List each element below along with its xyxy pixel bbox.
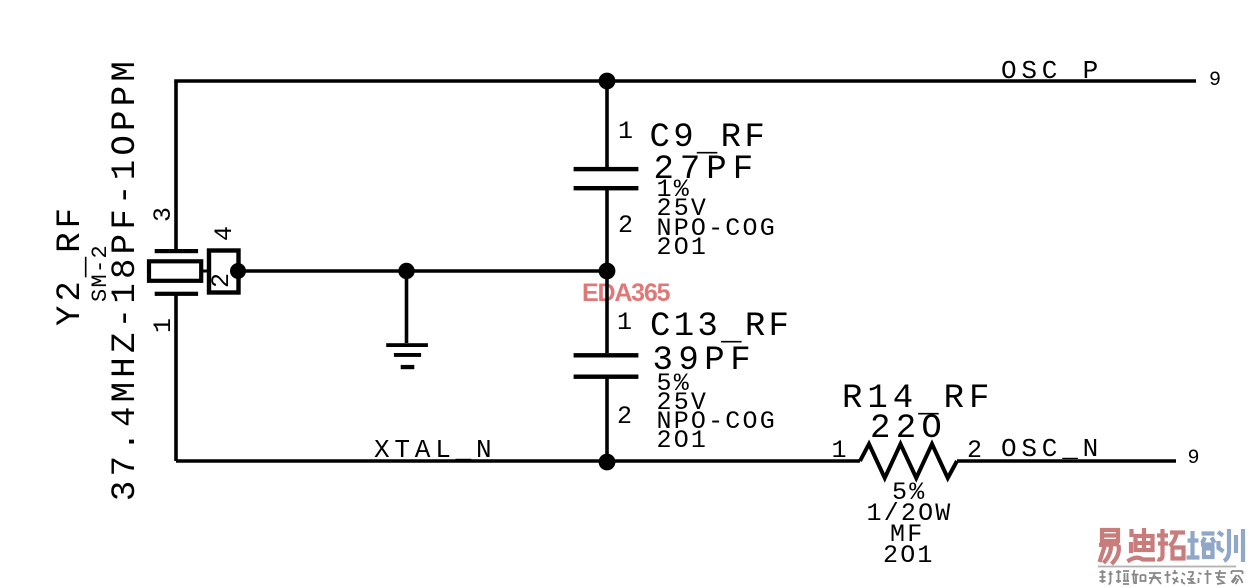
wire C9 vertical top: [605, 81, 609, 167]
logo slogan 射频和天线设计专家 (gray): [1100, 570, 1243, 584]
C9 pin 1: [618, 119, 633, 144]
crystal pin 3 (rotated): [151, 206, 176, 221]
crystal pin 4 (rotated): [212, 225, 237, 240]
junction dot middle C9/C13: [599, 263, 616, 280]
net label XTAL_N: [374, 437, 496, 463]
wire middle horizontal: [239, 269, 607, 273]
crystal Y2 body rect: [149, 261, 201, 281]
crystal pin 1 (rotated): [151, 317, 176, 332]
wire C13 vertical bottom: [605, 378, 609, 461]
junction dot crystal pin2: [230, 263, 246, 279]
R14 properties: [892, 480, 926, 505]
crystal Y2 package SM-2 (rotated): [90, 244, 112, 302]
C9 pin 2: [618, 213, 633, 238]
capacitor C13 refdes: [650, 310, 792, 344]
wire bottom right to OSC_N: [957, 459, 1176, 463]
logo char 训: [1218, 529, 1243, 562]
ground symbol: [386, 343, 428, 369]
C13 pin 1: [617, 310, 632, 335]
junction dot bottom: [599, 454, 616, 471]
crystal Y2 bottom plate: [155, 292, 198, 296]
junction dot ground tap: [398, 263, 414, 279]
C13 properties: [657, 371, 691, 396]
EDA365 watermark: [582, 281, 669, 306]
R14 pin 1: [832, 438, 847, 463]
wire C13 vertical top: [605, 271, 609, 353]
resistor R14 zigzag: [860, 444, 957, 478]
capacitor C13 value 39PF: [653, 344, 757, 378]
capacitor C13 plates: [574, 353, 639, 379]
capacitor C9 plates: [574, 167, 639, 191]
C13 pin 2: [617, 404, 632, 429]
resistor R14 value 220: [870, 412, 947, 446]
crystal Y2 refdes (rotated): [54, 204, 88, 326]
crystal Y2 body: [149, 249, 239, 296]
off-page number 9 top: [1209, 71, 1221, 91]
logo underline: [1098, 566, 1236, 568]
C9 properties: [657, 177, 691, 202]
wire crystal top vertical: [174, 81, 178, 252]
crystal body to pin-box stub: [201, 270, 210, 273]
wire ground stub: [405, 271, 409, 343]
wire C9 vertical bottom: [605, 190, 609, 271]
junction dot top: [599, 73, 616, 90]
capacitor C9 refdes: [650, 121, 769, 155]
logo char 易: [1099, 530, 1119, 564]
net label OSC_N: [1001, 436, 1103, 462]
wire top horizontal OSC_P: [174, 79, 1196, 83]
crystal Y2 value 37.4MHZ-18PF-1OPPM (rotated): [109, 57, 143, 501]
crystal pin box (pins 2/4): [209, 251, 239, 293]
wire bottom horizontal XTAL_N: [176, 459, 860, 463]
logo char 培: [1187, 531, 1215, 558]
crystal Y2 top plate: [155, 249, 198, 253]
logo char 迪: [1128, 528, 1156, 562]
off-page number 9 bottom: [1188, 449, 1200, 469]
resistor R14 refdes: [842, 382, 994, 416]
capacitor C9 value 27PF: [654, 153, 760, 187]
logo char 拓: [1157, 529, 1185, 560]
R14 pin 2: [967, 438, 982, 463]
crystal pin 2 (rotated): [209, 272, 234, 287]
wire crystal bottom vertical: [174, 295, 178, 461]
net label OSC_P: [1001, 58, 1103, 84]
